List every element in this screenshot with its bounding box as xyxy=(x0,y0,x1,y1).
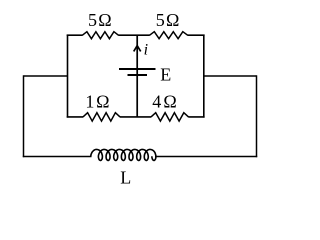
wire: inner bridge right vertical xyxy=(203,35,205,118)
wire: bottom right lead xyxy=(188,116,204,118)
wire: middle branch vertical xyxy=(136,35,138,117)
wire: top left lead xyxy=(67,34,83,36)
svg-text:5: 5 xyxy=(156,10,165,30)
svg-text:Ω: Ω xyxy=(98,10,111,30)
wire: outer loop left vertical xyxy=(23,75,25,157)
wire: outer loop left horizontal xyxy=(24,75,68,77)
svg-text:E: E xyxy=(160,64,171,84)
battery E positive plate xyxy=(119,68,156,70)
inductor L xyxy=(91,149,156,160)
wire: outer loop bottom left segment xyxy=(23,156,92,158)
svg-text:L: L xyxy=(120,168,131,188)
current arrow i xyxy=(134,46,141,52)
resistor R4 4 ohm bottom right xyxy=(151,113,189,121)
wire: outer loop right horizontal xyxy=(204,75,257,77)
wire: outer loop bottom right segment xyxy=(155,156,257,158)
battery E negative plate xyxy=(128,74,148,76)
svg-text:Ω: Ω xyxy=(166,10,179,30)
svg-text:1: 1 xyxy=(85,91,94,111)
svg-text:Ω: Ω xyxy=(96,91,109,111)
svg-text:4: 4 xyxy=(152,91,161,111)
wire: top middle segment xyxy=(118,34,150,36)
resistor R3 1 ohm bottom left xyxy=(83,113,120,121)
svg-text:i: i xyxy=(144,41,148,58)
wire: bottom left lead xyxy=(67,116,84,118)
svg-text:5: 5 xyxy=(88,10,97,30)
wire: bottom middle segment xyxy=(120,116,151,118)
resistor R2 5 ohm top right xyxy=(150,32,188,39)
svg-text:Ω: Ω xyxy=(163,91,176,111)
resistor R1 5 ohm top left xyxy=(82,32,118,39)
wire: top right lead xyxy=(187,34,204,36)
wire: inner bridge left vertical xyxy=(67,35,69,118)
wire: outer loop right vertical xyxy=(256,75,258,157)
